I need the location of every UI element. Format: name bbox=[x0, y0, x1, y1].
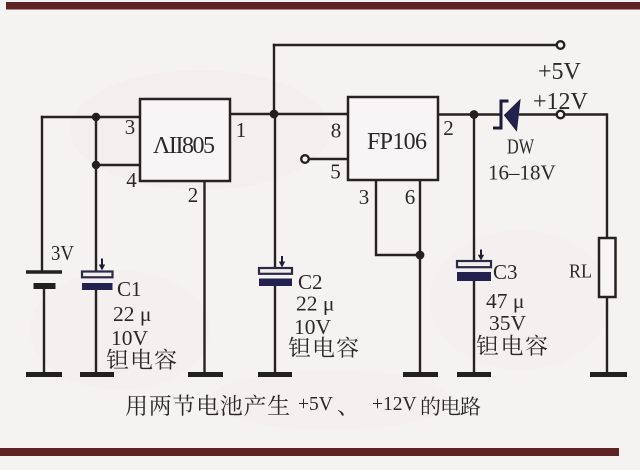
svg-text:RL: RL bbox=[569, 261, 592, 283]
svg-text:FP106: FP106 bbox=[367, 129, 427, 155]
svg-text:6: 6 bbox=[405, 185, 416, 209]
terminal +5V output bbox=[557, 41, 565, 49]
svg-text:+12V: +12V bbox=[372, 394, 417, 415]
svg-text:+12V: +12V bbox=[533, 89, 589, 115]
wire FP106 pin6 lead bbox=[419, 181, 421, 255]
ground C1 bbox=[80, 372, 114, 377]
ground RL bbox=[590, 372, 627, 377]
op-amp U2 FP106 box bbox=[348, 97, 438, 180]
wire C1 riser bbox=[95, 117, 97, 271]
capacitor C3 bbox=[457, 250, 491, 282]
svg-text:3: 3 bbox=[359, 185, 370, 209]
terminal FP106 pin5 bbox=[301, 155, 309, 163]
wire battery negative lead bbox=[43, 289, 45, 372]
wire AII805 pin2 to ground bbox=[203, 181, 205, 372]
wire pin3 from left rail to AII805 bbox=[42, 116, 140, 118]
svg-text:16–18V: 16–18V bbox=[488, 161, 556, 185]
value C3 bbox=[477, 260, 547, 356]
svg-text:4: 4 bbox=[126, 168, 137, 192]
svg-text:+5V: +5V bbox=[298, 394, 333, 415]
caption dunhao bbox=[338, 410, 344, 416]
svg-text:1: 1 bbox=[236, 118, 247, 142]
capacitor C2 bbox=[259, 256, 292, 286]
wire pin6 node to ground bbox=[419, 255, 421, 372]
wire FP106 pin2 to diode bbox=[438, 113, 500, 115]
wire pin1 to pin8 bbox=[231, 113, 348, 115]
caption 的电路 bbox=[422, 396, 440, 415]
diode DW zener bbox=[493, 100, 520, 131]
svg-text:22 μ: 22 μ bbox=[296, 292, 334, 316]
svg-text:35V: 35V bbox=[489, 311, 527, 335]
svg-text:C2: C2 bbox=[298, 270, 323, 294]
svg-text:DW: DW bbox=[507, 135, 534, 159]
svg-text:10V: 10V bbox=[111, 326, 149, 350]
battery B1 3V bbox=[26, 272, 62, 286]
svg-text:+5V: +5V bbox=[538, 59, 582, 85]
node junction pin1/top rail/C2 bbox=[270, 110, 279, 119]
svg-text:3V: 3V bbox=[51, 241, 74, 265]
capacitor C1 bbox=[82, 259, 113, 291]
node junction left rail pin3 bbox=[92, 113, 100, 121]
node junction pin4 tap bbox=[92, 161, 100, 169]
wire pin5 stub bbox=[310, 158, 349, 160]
wire C2 riser bbox=[274, 114, 276, 268]
wire node1 riser to top rail bbox=[273, 45, 275, 114]
ground FP106 pin6 bbox=[403, 372, 438, 377]
wire top +5V rail bbox=[274, 44, 557, 46]
node junction pin2/diode/C3 bbox=[470, 110, 479, 119]
svg-text:2: 2 bbox=[443, 116, 454, 140]
wire +12V terminal to RL bbox=[565, 115, 608, 238]
ground C3 bbox=[457, 372, 491, 377]
svg-text:ΛII805: ΛII805 bbox=[153, 133, 215, 159]
op-amp U1 AII805 box bbox=[140, 99, 230, 181]
ground AII805 pin2 bbox=[188, 372, 223, 377]
wire pin4 to AII805 bbox=[96, 164, 140, 166]
svg-text:22 μ: 22 μ bbox=[113, 302, 151, 326]
svg-text:47 μ: 47 μ bbox=[486, 289, 524, 313]
ground battery bbox=[26, 372, 62, 377]
caption 用两节电池产生 bbox=[126, 395, 146, 415]
wire C2 lower lead bbox=[274, 287, 276, 372]
wire FP106 pin3 loop bbox=[376, 181, 420, 255]
value C1 bbox=[107, 277, 176, 370]
resistor RL bbox=[599, 238, 616, 297]
wire diode to +12V terminal bbox=[520, 113, 557, 115]
wire C1 lower lead bbox=[95, 290, 97, 372]
wire left battery rail bbox=[41, 117, 43, 271]
value C2 bbox=[289, 270, 358, 358]
svg-text:3: 3 bbox=[125, 115, 136, 139]
svg-text:5: 5 bbox=[330, 160, 341, 184]
ground C2 bbox=[258, 372, 292, 377]
svg-text:C3: C3 bbox=[493, 260, 518, 284]
terminal +12V output bbox=[557, 111, 565, 119]
svg-text:2: 2 bbox=[188, 183, 199, 207]
svg-text:C1: C1 bbox=[117, 277, 142, 301]
wire RL lower lead bbox=[606, 297, 608, 372]
svg-text:8: 8 bbox=[331, 119, 342, 143]
wire C3 riser bbox=[473, 115, 475, 262]
svg-text:10V: 10V bbox=[294, 315, 332, 339]
node junction pin3/pin6 bbox=[416, 251, 425, 260]
wire C3 lower lead bbox=[473, 281, 475, 372]
